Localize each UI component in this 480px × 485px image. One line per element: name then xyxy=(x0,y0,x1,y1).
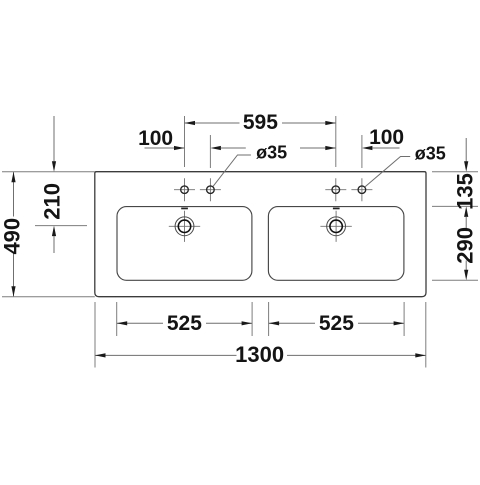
extension line bottom basinL-left xyxy=(116,302,118,336)
dimension 595 line xyxy=(185,122,336,124)
svg-text:100: 100 xyxy=(138,127,173,150)
dimension 100 right arrow right xyxy=(325,146,336,150)
extension line right hole2 vertical xyxy=(361,135,363,168)
dimension 525 right arrow right xyxy=(394,321,405,325)
dimension 210 upper line xyxy=(53,116,55,162)
extension line bottom basinL-right xyxy=(251,302,253,336)
svg-text:210: 210 xyxy=(40,183,65,220)
dimension 135 upper line xyxy=(465,138,467,162)
dimension 100 left tail line xyxy=(145,147,185,149)
right faucet hole crosshair xyxy=(320,211,351,242)
dimension 525 left line xyxy=(117,322,252,324)
svg-text:ø35: ø35 xyxy=(415,144,446,164)
right tap hole 1 crosshair xyxy=(325,178,346,201)
svg-text:595: 595 xyxy=(243,111,278,134)
left tap hole 1 circle xyxy=(181,186,189,194)
extension line right basin bottom xyxy=(432,279,478,281)
right tap hole 1 circle xyxy=(332,186,340,194)
right faucet hole inner circle xyxy=(330,220,342,232)
leader line right ø35 xyxy=(365,157,410,188)
extension line bottom edge left xyxy=(2,296,95,298)
dimension 290 text xyxy=(452,227,477,264)
left tap hole 1 crosshair xyxy=(174,178,195,201)
extension line right top xyxy=(432,171,478,173)
dimension 525 left arrow right xyxy=(242,321,253,325)
extension line top edge left xyxy=(2,171,95,173)
dimension 1300 line xyxy=(95,354,426,356)
extension line bottom basinR-right xyxy=(403,302,405,336)
dimension 595 arrow left xyxy=(185,121,196,125)
svg-text:1300: 1300 xyxy=(235,342,284,367)
extension line right basin top xyxy=(432,205,478,207)
right tap hole 2 circle xyxy=(358,186,366,194)
extension line bottom rect-left xyxy=(94,302,96,368)
dimension 100 left inner tail xyxy=(221,147,246,149)
dimension 100 left arrow right xyxy=(174,146,185,150)
dimension 135 text xyxy=(453,173,478,210)
dimension 210 lower line xyxy=(53,236,55,253)
right faucet hole outer circle xyxy=(327,217,346,236)
svg-text:ø35: ø35 xyxy=(256,143,287,163)
dimension 210 arrow down xyxy=(52,161,56,172)
dimension 525 right line xyxy=(269,322,405,324)
right tap hole 2 crosshair xyxy=(351,178,372,201)
extension line bottom basinR-left xyxy=(268,302,270,336)
left basin inner outline xyxy=(117,207,252,281)
dimension 290 arrow up xyxy=(464,206,468,217)
extension line bottom rect-right xyxy=(425,302,427,368)
dimension 490 text xyxy=(0,218,25,255)
left faucet hole inner circle xyxy=(178,220,190,232)
right basin overflow slot xyxy=(333,208,340,210)
extension line right faucet vertical xyxy=(335,116,337,167)
svg-text:100: 100 xyxy=(369,126,404,149)
left basin overflow slot xyxy=(181,208,188,210)
dimension 490 line xyxy=(13,172,15,296)
svg-text:490: 490 xyxy=(0,218,25,255)
dimension 210 arrow up xyxy=(52,226,56,237)
svg-text:135: 135 xyxy=(453,173,478,210)
dimension 525 right arrow left xyxy=(269,321,280,325)
washbasin outer outline xyxy=(95,172,426,297)
left faucet hole outer circle xyxy=(175,217,194,236)
dimension 290 lower line xyxy=(465,261,467,271)
right basin inner outline xyxy=(268,207,404,281)
dimension 100 left arrow left xyxy=(210,146,221,150)
dimension 100 right arrow left xyxy=(362,146,373,150)
extension line faucet axis left xyxy=(35,225,87,227)
leader line left ø35 xyxy=(213,155,251,186)
left tap hole 2 crosshair xyxy=(200,178,221,201)
dimension 1300 arrow left xyxy=(95,353,106,357)
extension line left hole2 vertical xyxy=(209,135,211,168)
extension line left faucet vertical xyxy=(184,116,186,167)
dimension 100 right tail line xyxy=(372,147,399,149)
dimension 290 upper line xyxy=(465,217,467,230)
svg-text:525: 525 xyxy=(319,312,354,335)
dimension 490 arrow up xyxy=(11,172,15,183)
dimension 210 text xyxy=(40,183,65,220)
dimension 595 arrow right xyxy=(325,121,336,125)
dimension 135 arrow down xyxy=(464,161,468,172)
dimension 490 arrow down xyxy=(11,286,15,297)
left tap hole 2 circle xyxy=(207,186,215,194)
dimension 1300 arrow right xyxy=(415,353,426,357)
dimension 100 right inner tail xyxy=(300,147,336,149)
dimension 525 left arrow left xyxy=(117,321,128,325)
dimension 290 arrow down xyxy=(464,270,468,281)
left faucet hole crosshair xyxy=(169,211,200,242)
svg-text:290: 290 xyxy=(452,227,477,264)
svg-text:525: 525 xyxy=(167,312,202,335)
